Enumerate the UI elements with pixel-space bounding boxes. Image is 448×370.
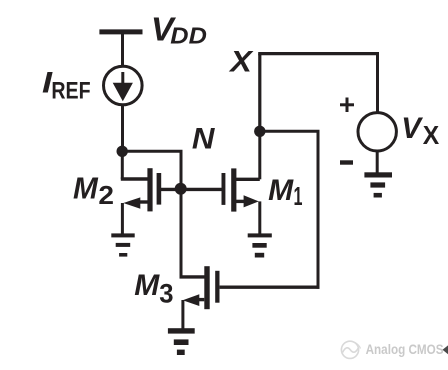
label M1 [268,174,302,211]
ground M1 source [248,233,272,257]
label VDD [151,12,207,49]
node A junction dot [117,146,128,157]
wire N column down to gate node [180,150,183,189]
svg-text:N: N [192,122,215,155]
svg-text:3: 3 [159,278,173,309]
svg-text:X: X [423,122,440,151]
svg-text:M: M [134,269,160,302]
svg-text:2: 2 [98,181,114,210]
svg-text:DD: DD [170,24,207,50]
label + [340,98,354,113]
watermark arrow [443,345,448,354]
watermark logo [341,341,360,358]
label IREF [42,66,91,105]
svg-text:1: 1 [294,181,303,211]
wire VX to ground [376,150,379,173]
label VX [401,112,439,150]
gate wire M2-M1 [161,188,222,191]
node N gate junction dot [175,183,187,195]
wire node X to M3 gate [220,131,320,288]
VDD supply bar [99,29,142,34]
wire node X up across to VX [258,54,379,131]
wire gate node down to M3 drain [180,189,183,278]
label X [228,45,254,78]
voltage source VX [358,113,396,151]
svg-text:Analog CMOS: Analog CMOS [366,341,444,357]
transistor M1 [222,131,260,234]
transistor M3 [180,266,220,329]
label minus [340,160,353,164]
ground M3 source [168,328,195,355]
svg-text:M: M [268,174,294,207]
current source IREF [104,66,143,105]
svg-text:M: M [73,171,98,206]
svg-text:V: V [401,112,423,145]
ground VX [364,172,392,197]
wire VDD to IREF [121,33,124,66]
label M2 [73,171,114,210]
ground M2 source [111,233,134,256]
wire IREF to node A [121,105,124,152]
svg-text:X: X [228,45,254,78]
transistor M2 [121,151,161,234]
svg-text:REF: REF [51,77,90,104]
watermark text AnalogCMOS [366,341,444,357]
label M3 [134,269,173,309]
node X junction dot [254,126,265,137]
wire node A to N column [122,150,183,153]
label N [192,122,215,155]
